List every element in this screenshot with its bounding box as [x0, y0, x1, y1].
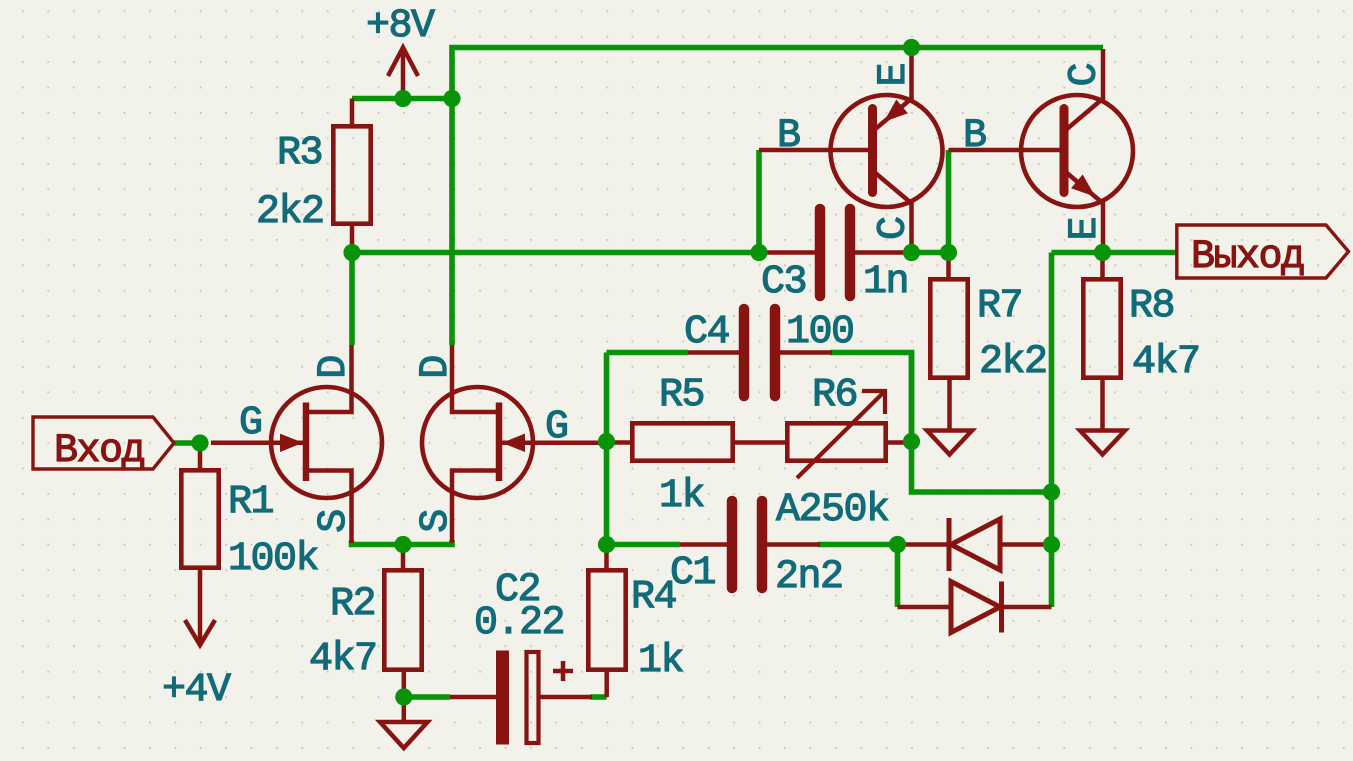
resistor R7: [930, 253, 967, 431]
svg-text:S: S: [414, 510, 459, 533]
global label Вход: [33, 417, 174, 474]
svg-text:B: B: [963, 114, 986, 159]
wire R3 bottom main horizontal: [352, 250, 762, 256]
power +8V: [388, 48, 418, 99]
svg-text:R2: R2: [330, 582, 375, 627]
wire diode lower loop right: [1049, 545, 1055, 608]
wire C4 left: [607, 350, 689, 356]
svg-text:100: 100: [786, 310, 854, 355]
JFET Q-right (VT2, mirrored): [422, 345, 607, 543]
wire +8V rail horizontal: [352, 96, 452, 102]
capacitor C1: [680, 501, 820, 588]
svg-text:4k7: 4k7: [309, 637, 377, 682]
capacitor C4: [688, 309, 832, 396]
junction R4 top / C1 left: [598, 536, 615, 553]
diode D-lower (points right): [898, 582, 1052, 633]
svg-text:Вход: Вход: [54, 429, 145, 474]
resistor R4: [588, 545, 625, 698]
svg-text:G: G: [239, 401, 262, 446]
wire right vertical (output net): [1049, 253, 1055, 545]
junction at +8V rail: [394, 90, 411, 107]
wire R2 bottom to C2: [404, 694, 450, 700]
svg-text:S: S: [312, 510, 357, 533]
resistor R5: [607, 423, 786, 460]
wire R3 bottom to JFET1 drain: [349, 253, 355, 346]
svg-text:Выход: Выход: [1191, 235, 1304, 280]
svg-text:C1: C1: [670, 551, 716, 596]
wire C1 left: [607, 542, 681, 548]
resistor R8: [1083, 253, 1120, 431]
junction right wire / R6 branch: [1043, 483, 1060, 500]
junction Q2 emitter / R8 top: [1094, 244, 1111, 261]
svg-text:D: D: [414, 356, 459, 379]
svg-text:R5: R5: [659, 373, 704, 418]
diode D-upper (points left): [898, 518, 1052, 571]
global label Выход: [1177, 225, 1349, 280]
junction rail / JFET2 drain: [443, 90, 460, 107]
svg-text:R1: R1: [228, 480, 274, 525]
wire C4 right down to R6 right: [830, 353, 1052, 493]
svg-text:E: E: [1063, 218, 1108, 241]
svg-text:2k2: 2k2: [256, 190, 324, 235]
trimmer R6: [787, 391, 911, 478]
junction gate node / R5 left: [598, 433, 615, 450]
wire R6 right junction vertical: [909, 353, 915, 446]
svg-text:100k: 100k: [228, 537, 318, 582]
wire C3 right to Q2 base junction: [912, 150, 949, 253]
svg-text:R8: R8: [1129, 284, 1174, 329]
wire input to junction: [174, 440, 200, 446]
svg-text:A250k: A250k: [776, 488, 889, 533]
wire diode lower loop left: [895, 545, 901, 608]
svg-text:+4V: +4V: [162, 668, 231, 713]
svg-text:D: D: [312, 356, 357, 379]
ground below R2: [380, 697, 428, 748]
junction Q2 base / R7 top: [940, 244, 957, 261]
wire JFET sources to R2 top: [352, 540, 453, 545]
resistor R2: [384, 545, 421, 698]
junction diodes right: [1043, 536, 1060, 553]
capacitor C3: [762, 209, 908, 296]
svg-text:C: C: [872, 217, 917, 240]
svg-text:B: B: [777, 114, 800, 159]
svg-text:2k2: 2k2: [979, 340, 1047, 385]
svg-text:R6: R6: [812, 373, 857, 418]
wire Q1 base down to main wire: [756, 150, 762, 253]
svg-text:R3: R3: [277, 131, 322, 176]
svg-text:C3: C3: [761, 260, 806, 305]
svg-text:R7: R7: [977, 284, 1022, 329]
ground below R7: [927, 431, 972, 455]
resistor R3: [333, 99, 370, 253]
capacitor C2 (polarized): [450, 651, 592, 745]
junction R3 bottom: [343, 244, 360, 261]
junction C1 right / diodes left: [889, 536, 906, 553]
junction R6 right: [903, 433, 920, 450]
svg-text:4k7: 4k7: [1132, 340, 1200, 385]
junction C3 left / Q1 base: [750, 244, 767, 261]
junction input / R1 top: [191, 434, 208, 451]
svg-text:C: C: [1063, 64, 1108, 87]
svg-text:1n: 1n: [863, 260, 908, 305]
junction sources / R2 top: [394, 536, 411, 553]
svg-text:1k: 1k: [659, 474, 704, 519]
svg-text:G: G: [545, 405, 568, 450]
svg-text:+8V: +8V: [366, 4, 435, 49]
transistor Q2 (NPN): [949, 49, 1134, 253]
wire gate vertical C4-R5-C1: [604, 353, 610, 545]
wire C1 right to diodes: [818, 542, 898, 548]
svg-text:2n2: 2n2: [775, 555, 843, 600]
resistor R1: [181, 443, 218, 610]
svg-text:0.22: 0.22: [474, 601, 564, 646]
power +4V arrow: [185, 610, 215, 645]
junction R2 bottom / ground: [395, 688, 412, 705]
transistor Q1 (PNP): [759, 49, 943, 253]
wire top horizontal run: [452, 48, 1103, 99]
junction top wire / Q1 emitter: [903, 39, 920, 56]
svg-text:E: E: [872, 64, 917, 87]
junction C3 right / Q1 collector: [903, 244, 920, 261]
wire rail to JFET2 drain: [449, 99, 455, 346]
svg-text:C4: C4: [684, 310, 729, 355]
svg-text:1k: 1k: [638, 639, 683, 684]
wire C2 right corner: [590, 694, 607, 700]
wire to output label: [1052, 250, 1177, 256]
JFET Q-left (VT1): [211, 345, 382, 543]
ground below R8: [1080, 431, 1125, 455]
